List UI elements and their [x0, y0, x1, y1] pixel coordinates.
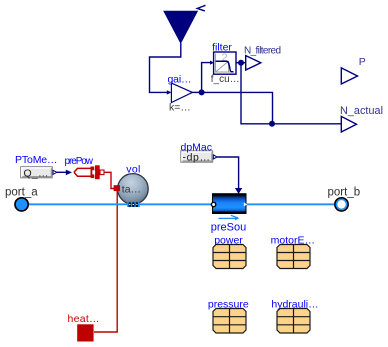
wire N_in to gain	[150, 43, 181, 95]
table pressure	[213, 309, 246, 334]
gain value label k=...	[169, 102, 191, 114]
preSou right arrow marker	[244, 202, 248, 206]
label N_actual	[340, 105, 383, 117]
port_b label	[328, 187, 361, 199]
label marker < of input connector	[197, 5, 205, 11]
table power	[213, 245, 246, 269]
gain block gaiSpe triangle	[171, 83, 192, 103]
svg-text:port_b: port_b	[328, 187, 361, 199]
vol fluid ports strip	[127, 202, 140, 207]
dpMac text -dp...	[183, 152, 211, 164]
gain label gai...	[168, 73, 192, 85]
block dpMac (gray raised rectangle)	[181, 151, 213, 162]
output connector N_filtered	[246, 56, 261, 70]
svg-text:vol: vol	[126, 164, 140, 176]
preSou label	[211, 222, 246, 234]
svg-text:ta…: ta…	[122, 184, 141, 196]
heatPort label heat...	[68, 313, 100, 325]
table motorEfficiency	[277, 245, 310, 269]
svg-text:dpMac: dpMac	[181, 141, 213, 153]
mixing volume vol sphere	[118, 174, 149, 205]
vol label	[126, 164, 140, 176]
svg-text:power: power	[214, 234, 243, 246]
port_a label	[5, 187, 38, 199]
vol heat port square	[114, 185, 120, 191]
wire PToMed to prePow	[57, 170, 72, 176]
wire junction to filter input	[202, 61, 214, 93]
svg-text:PToMe…: PToMe…	[15, 154, 58, 166]
filter icon gray axes and diagonal	[216, 54, 234, 73]
heat source prePow icon	[74, 165, 104, 179]
filter icon order number 2	[222, 52, 228, 64]
label N_filtered	[244, 46, 281, 57]
svg-text:Q_…: Q_…	[24, 167, 49, 179]
wire dpMac to preSou	[217, 157, 242, 194]
dpMac output connector	[213, 155, 217, 159]
svg-text:f_cu…: f_cu…	[211, 74, 240, 85]
input connector N_in (filled triangle pointing down)	[164, 11, 197, 43]
svg-text:P: P	[359, 56, 366, 68]
pressure label	[208, 298, 249, 310]
svg-text:k=…: k=…	[169, 102, 191, 114]
filter block box	[214, 52, 236, 74]
svg-text:-dp…: -dp…	[183, 152, 211, 164]
wire gain output to junction	[192, 91, 201, 93]
svg-text:filter: filter	[212, 41, 232, 53]
svg-text:preSou: preSou	[211, 222, 246, 234]
filter icon response curve	[216, 61, 234, 71]
junction node filter output	[238, 60, 244, 66]
svg-text:pressure: pressure	[208, 298, 249, 310]
heat wire vol to heatPort	[94, 189, 117, 332]
port_b connector	[335, 198, 348, 211]
power label	[214, 234, 243, 246]
hydraulicEfficiency label	[271, 298, 318, 310]
svg-text:port_a: port_a	[5, 187, 38, 199]
PToMed label	[15, 154, 58, 166]
svg-text:prePow: prePow	[65, 156, 94, 167]
block PToMed (gray raised rectangle)	[21, 167, 53, 178]
svg-text:heat…: heat…	[68, 313, 100, 325]
PToMed output connector	[53, 170, 57, 174]
motorEfficiency label	[271, 234, 315, 246]
wire junction to N_actual	[202, 92, 273, 123]
svg-text:N_actual: N_actual	[340, 105, 383, 117]
filter value label f_cu...	[211, 74, 240, 85]
label P	[359, 56, 366, 68]
junction node on N_actual line	[269, 121, 275, 127]
preSou flow direction arrow	[218, 215, 239, 220]
PToMed text Q_...	[24, 167, 49, 179]
wire filter to N_filtered	[236, 62, 246, 64]
port_a connector	[15, 198, 28, 211]
output connector P	[341, 68, 357, 84]
svg-text:motorE…: motorE…	[271, 234, 315, 246]
prePow label	[65, 156, 94, 167]
table hydraulicEfficiency	[277, 309, 310, 334]
output connector N_actual	[341, 116, 356, 132]
fluid pipe line port_a to port_b	[28, 203, 335, 205]
filter label	[212, 41, 232, 53]
svg-text:hydrauli…: hydrauli…	[271, 298, 318, 310]
vol text ta...	[122, 184, 141, 196]
wire prePow to vol heat port	[104, 172, 115, 188]
heatPort connector square	[77, 324, 93, 341]
pressure source preSou (cylinder)	[213, 194, 247, 214]
junction node after gain	[199, 89, 205, 95]
preSou left fluid port	[211, 202, 215, 206]
wire filter output down to N_actual line	[241, 63, 341, 124]
svg-text:N_filtered: N_filtered	[244, 46, 281, 57]
svg-text:gai…: gai…	[168, 73, 192, 85]
dpMac label	[181, 141, 213, 153]
